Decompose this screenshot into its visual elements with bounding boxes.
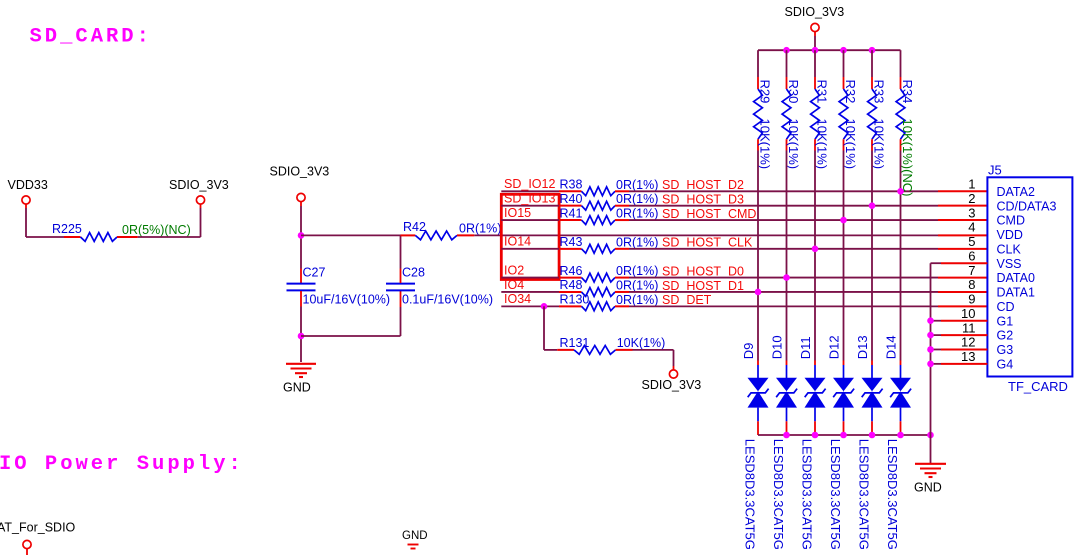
diode D10 (TVS) [786, 361, 788, 366]
connector J5 box [987, 177, 1072, 376]
wire row SD_HOST_D2 to connector [629, 190, 938, 192]
svg-text:AT_For_SDIO: AT_For_SDIO [0, 521, 76, 535]
wire VDD33 down [25, 204, 27, 208]
svg-text:10K(1%)(NC): 10K(1%)(NC) [900, 119, 915, 197]
svg-text:R30: R30 [786, 80, 801, 104]
svg-text:SD_HOST_CMD: SD_HOST_CMD [662, 207, 756, 221]
node row SD_HOST_CLK wire [501, 248, 559, 250]
svg-text:9: 9 [968, 292, 975, 307]
svg-text:CLK: CLK [997, 242, 1022, 256]
svg-text:VDD33: VDD33 [8, 178, 48, 192]
svg-text:10K(1%): 10K(1%) [758, 119, 773, 170]
diode D9 (TVS) [757, 361, 759, 366]
svg-text:D9: D9 [741, 343, 756, 360]
group box (red) [501, 194, 559, 279]
svg-text:C28: C28 [402, 266, 425, 280]
svg-text:CD/DATA3: CD/DATA3 [997, 199, 1057, 213]
node VSS junction [927, 332, 934, 339]
resistor R33 [871, 50, 873, 77]
wire diode ground bus [758, 434, 931, 436]
wire pullup bus [758, 49, 901, 51]
capacitor C28 [400, 291, 402, 307]
pin stub R130.2 [615, 305, 629, 307]
svg-text:SD_HOST_D1: SD_HOST_D1 [662, 279, 744, 293]
resistor R31 [814, 50, 816, 77]
node row SD_HOST_D3 wire [501, 205, 559, 207]
power port SDIO_3V3 (R131) [669, 370, 677, 378]
svg-text:0R(1%): 0R(1%) [616, 178, 658, 192]
wire R225 left [26, 236, 64, 238]
wire column R29 down to diode [757, 151, 759, 361]
wire column R33 down to diode [871, 151, 873, 361]
svg-text:IO15: IO15 [504, 206, 531, 220]
svg-text:10K(1%): 10K(1%) [872, 119, 887, 170]
svg-text:5: 5 [968, 234, 975, 249]
svg-text:SD_DET: SD_DET [662, 293, 712, 307]
svg-text:IO14: IO14 [504, 235, 531, 249]
svg-text:LESD8D3.3CAT5G: LESD8D3.3CAT5G [856, 439, 871, 550]
pin stub R43.2 [615, 248, 629, 250]
svg-text:0R(1%): 0R(1%) [616, 264, 658, 278]
node row SD_HOST_D1 wire [501, 291, 559, 293]
svg-text:CD: CD [997, 300, 1015, 314]
svg-text:IO34: IO34 [504, 292, 531, 306]
wire R131 branch [543, 306, 545, 350]
pin stub R48.2 [615, 291, 629, 293]
svg-text:R225: R225 [52, 222, 82, 236]
diode D12 (TVS) [843, 361, 845, 366]
svg-text:0R(1%): 0R(1%) [616, 235, 658, 249]
svg-text:SD_HOST_CLK: SD_HOST_CLK [662, 236, 753, 250]
svg-text:C27: C27 [303, 266, 326, 280]
svg-text:SD_HOST_D2: SD_HOST_D2 [662, 178, 744, 192]
svg-text:D12: D12 [827, 335, 842, 359]
node junction R34 to row [897, 188, 904, 195]
node row SD_DET wire [501, 305, 559, 307]
node junction R31 to row [812, 246, 819, 253]
svg-text:2: 2 [968, 191, 975, 206]
svg-text:G2: G2 [997, 329, 1014, 343]
svg-text:LESD8D3.3CAT5G: LESD8D3.3CAT5G [742, 439, 757, 550]
svg-text:CMD: CMD [997, 214, 1025, 228]
wire R131 to terminal [633, 349, 674, 351]
svg-text:R43: R43 [560, 235, 583, 249]
wire VSS vertical to ground [930, 263, 932, 463]
node rail/VDD row [298, 232, 305, 239]
svg-text:J5: J5 [988, 163, 1002, 178]
capacitor C27 [300, 269, 302, 284]
svg-text:0R(1%): 0R(1%) [616, 293, 658, 307]
svg-text:DATA0: DATA0 [997, 271, 1035, 285]
svg-text:R48: R48 [560, 278, 583, 292]
wire column R32 down to diode [843, 151, 845, 361]
node VSS junction [927, 346, 934, 353]
svg-text:0R(1%): 0R(1%) [616, 207, 658, 221]
pin stub R41.2 [615, 219, 629, 221]
diode D13 (TVS) [871, 361, 873, 366]
resistor R29 [757, 50, 759, 77]
wire C28 top to VDD row [400, 235, 402, 268]
svg-text:12: 12 [961, 335, 975, 350]
wire C28 bottom [301, 335, 401, 337]
node row SD_HOST_D2 wire [501, 190, 559, 192]
svg-text:R31: R31 [815, 80, 830, 104]
svg-text:D11: D11 [798, 336, 813, 359]
svg-text:TF_CARD: TF_CARD [1008, 379, 1068, 394]
svg-text:10K(1%): 10K(1%) [786, 119, 801, 170]
wire row SD_HOST_CMD to connector [629, 219, 938, 221]
svg-text:3: 3 [968, 205, 975, 220]
node row SD_HOST_D0 wire [501, 277, 559, 279]
svg-text:D13: D13 [855, 335, 870, 359]
node junction R30 to row [783, 274, 790, 281]
pin stub R225.1 [64, 236, 81, 238]
wire row SD_HOST_D1 to connector [629, 291, 938, 293]
svg-text:GND: GND [914, 480, 942, 494]
svg-text:IO Power Supply:: IO Power Supply: [0, 453, 244, 476]
wire column R31 down to diode [814, 151, 816, 361]
svg-text:6: 6 [968, 248, 975, 263]
wire pin 11 stub [931, 334, 942, 336]
wire pin 6 stub [931, 262, 942, 264]
wire rail to gnd [300, 307, 302, 363]
svg-text:SD_HOST_D0: SD_HOST_D0 [662, 264, 744, 278]
pin stub R40.1 [559, 205, 582, 207]
svg-text:GND: GND [402, 530, 428, 542]
node VSS junction [927, 361, 934, 368]
node junction R32 to row [840, 217, 847, 224]
node bus junction [840, 47, 847, 54]
node diode bus junction [812, 432, 819, 439]
node bus junction [812, 47, 819, 54]
pin stub R225.2 [117, 236, 138, 238]
svg-text:R33: R33 [872, 80, 887, 104]
node SD_DET branch [541, 303, 548, 310]
svg-text:LESD8D3.3CAT5G: LESD8D3.3CAT5G [799, 439, 814, 550]
svg-text:10K(1%): 10K(1%) [815, 119, 830, 170]
wire top terminal [814, 32, 816, 36]
diode D11 (TVS) [814, 361, 816, 366]
wire pin 12 stub [931, 348, 942, 350]
resistor R32 [843, 50, 845, 77]
svg-text:R34: R34 [900, 80, 915, 104]
svg-text:G3: G3 [997, 343, 1014, 357]
svg-text:SD_IO13: SD_IO13 [504, 191, 555, 205]
resistor R34 [900, 50, 902, 77]
svg-text:SDIO_3V3: SDIO_3V3 [642, 378, 702, 392]
node diode bus junction [897, 432, 904, 439]
svg-text:10uF/16V(10%): 10uF/16V(10%) [303, 293, 391, 307]
diode D14 (TVS) [900, 361, 902, 366]
wire VDD row to connector [474, 234, 938, 236]
svg-text:D10: D10 [770, 335, 785, 359]
svg-text:8: 8 [968, 277, 975, 292]
svg-text:7: 7 [968, 263, 975, 278]
node row SD_HOST_CMD wire [501, 219, 559, 221]
svg-text:DATA2: DATA2 [997, 185, 1035, 199]
node rail/C28 bottom [298, 333, 305, 340]
wire rail down [300, 202, 302, 206]
svg-text:0R(5%)(NC): 0R(5%)(NC) [122, 223, 191, 237]
pin stub R46.2 [615, 277, 629, 279]
pin stub R40.2 [615, 205, 629, 207]
pin stub R41.1 [559, 219, 582, 221]
svg-text:R40: R40 [560, 192, 583, 206]
wire VDD row red stub [938, 234, 987, 236]
node bus junction [869, 47, 876, 54]
wire pin 13 stub [931, 363, 942, 365]
svg-text:4: 4 [968, 220, 975, 235]
svg-text:0R(1%): 0R(1%) [616, 278, 658, 292]
ground GND bottom right [915, 463, 946, 465]
pin stub R48.1 [559, 291, 582, 293]
svg-text:10K(1%): 10K(1%) [617, 336, 666, 350]
pin stub R38.2 [615, 190, 629, 192]
svg-text:LESD8D3.3CAT5G: LESD8D3.3CAT5G [828, 439, 843, 550]
svg-text:11: 11 [962, 320, 976, 335]
node junction R33 to row [869, 202, 876, 209]
svg-text:0R(1%): 0R(1%) [459, 222, 501, 236]
svg-text:R130: R130 [560, 293, 590, 307]
node bus junction [783, 47, 790, 54]
svg-text:IO2: IO2 [504, 263, 524, 277]
ground GND under C27 [286, 363, 316, 365]
wire row SD_DET to connector [629, 305, 938, 307]
node junction R29 to row [755, 289, 762, 296]
svg-text:R46: R46 [560, 264, 583, 278]
wire VDD row left [301, 234, 401, 236]
svg-text:10: 10 [961, 306, 975, 321]
svg-text:LESD8D3.3CAT5G: LESD8D3.3CAT5G [771, 439, 786, 550]
svg-text:R38: R38 [560, 178, 583, 192]
svg-text:SD_CARD:: SD_CARD: [30, 26, 152, 49]
svg-text:SDIO_3V3: SDIO_3V3 [785, 5, 845, 19]
svg-text:13: 13 [961, 349, 975, 364]
svg-text:0R(1%): 0R(1%) [616, 192, 658, 206]
svg-text:10K(1%): 10K(1%) [843, 119, 858, 170]
node VSS junction [927, 317, 934, 324]
node diode bus junction [869, 432, 876, 439]
svg-text:R42: R42 [403, 220, 426, 234]
svg-text:0.1uF/16V(10%): 0.1uF/16V(10%) [402, 293, 493, 307]
wire row SD_HOST_D0 to connector [629, 277, 938, 279]
svg-text:R29: R29 [758, 80, 773, 104]
svg-text:DATA1: DATA1 [997, 286, 1035, 300]
svg-text:G4: G4 [997, 357, 1014, 371]
wire row SD_HOST_CLK to connector [629, 248, 938, 250]
svg-text:1: 1 [968, 177, 975, 192]
svg-text:IO4: IO4 [504, 278, 524, 292]
svg-text:SD_HOST_D3: SD_HOST_D3 [662, 192, 744, 206]
svg-text:GND: GND [283, 381, 311, 395]
pin stub R38.1 [559, 190, 582, 192]
wire pin 10 stub [931, 320, 942, 322]
svg-text:R32: R32 [843, 80, 858, 104]
wire R225 right [138, 236, 201, 238]
svg-text:VDD: VDD [997, 228, 1023, 242]
pin stub R46.1 [559, 277, 582, 279]
pin stub R130.1 [559, 305, 582, 307]
wire column R34 down to diode [900, 151, 902, 361]
resistor R131 [557, 349, 574, 351]
wire column R30 down to diode [786, 151, 788, 361]
svg-text:SDIO_3V3: SDIO_3V3 [169, 178, 229, 192]
node bus to VSS vertical [927, 432, 934, 439]
svg-text:LESD8D3.3CAT5G: LESD8D3.3CAT5G [885, 439, 900, 550]
svg-text:VSS: VSS [997, 257, 1022, 271]
svg-text:G1: G1 [997, 314, 1014, 328]
svg-text:SD_IO12: SD_IO12 [504, 177, 555, 191]
node diode bus junction [840, 432, 847, 439]
node diode bus junction [783, 432, 790, 439]
svg-text:R41: R41 [560, 206, 583, 220]
resistor R30 [786, 50, 788, 77]
wire row SD_HOST_D3 to connector [629, 205, 938, 207]
pin stub R43.1 [559, 248, 582, 250]
svg-text:SDIO_3V3: SDIO_3V3 [270, 165, 330, 179]
svg-text:D14: D14 [884, 335, 899, 359]
